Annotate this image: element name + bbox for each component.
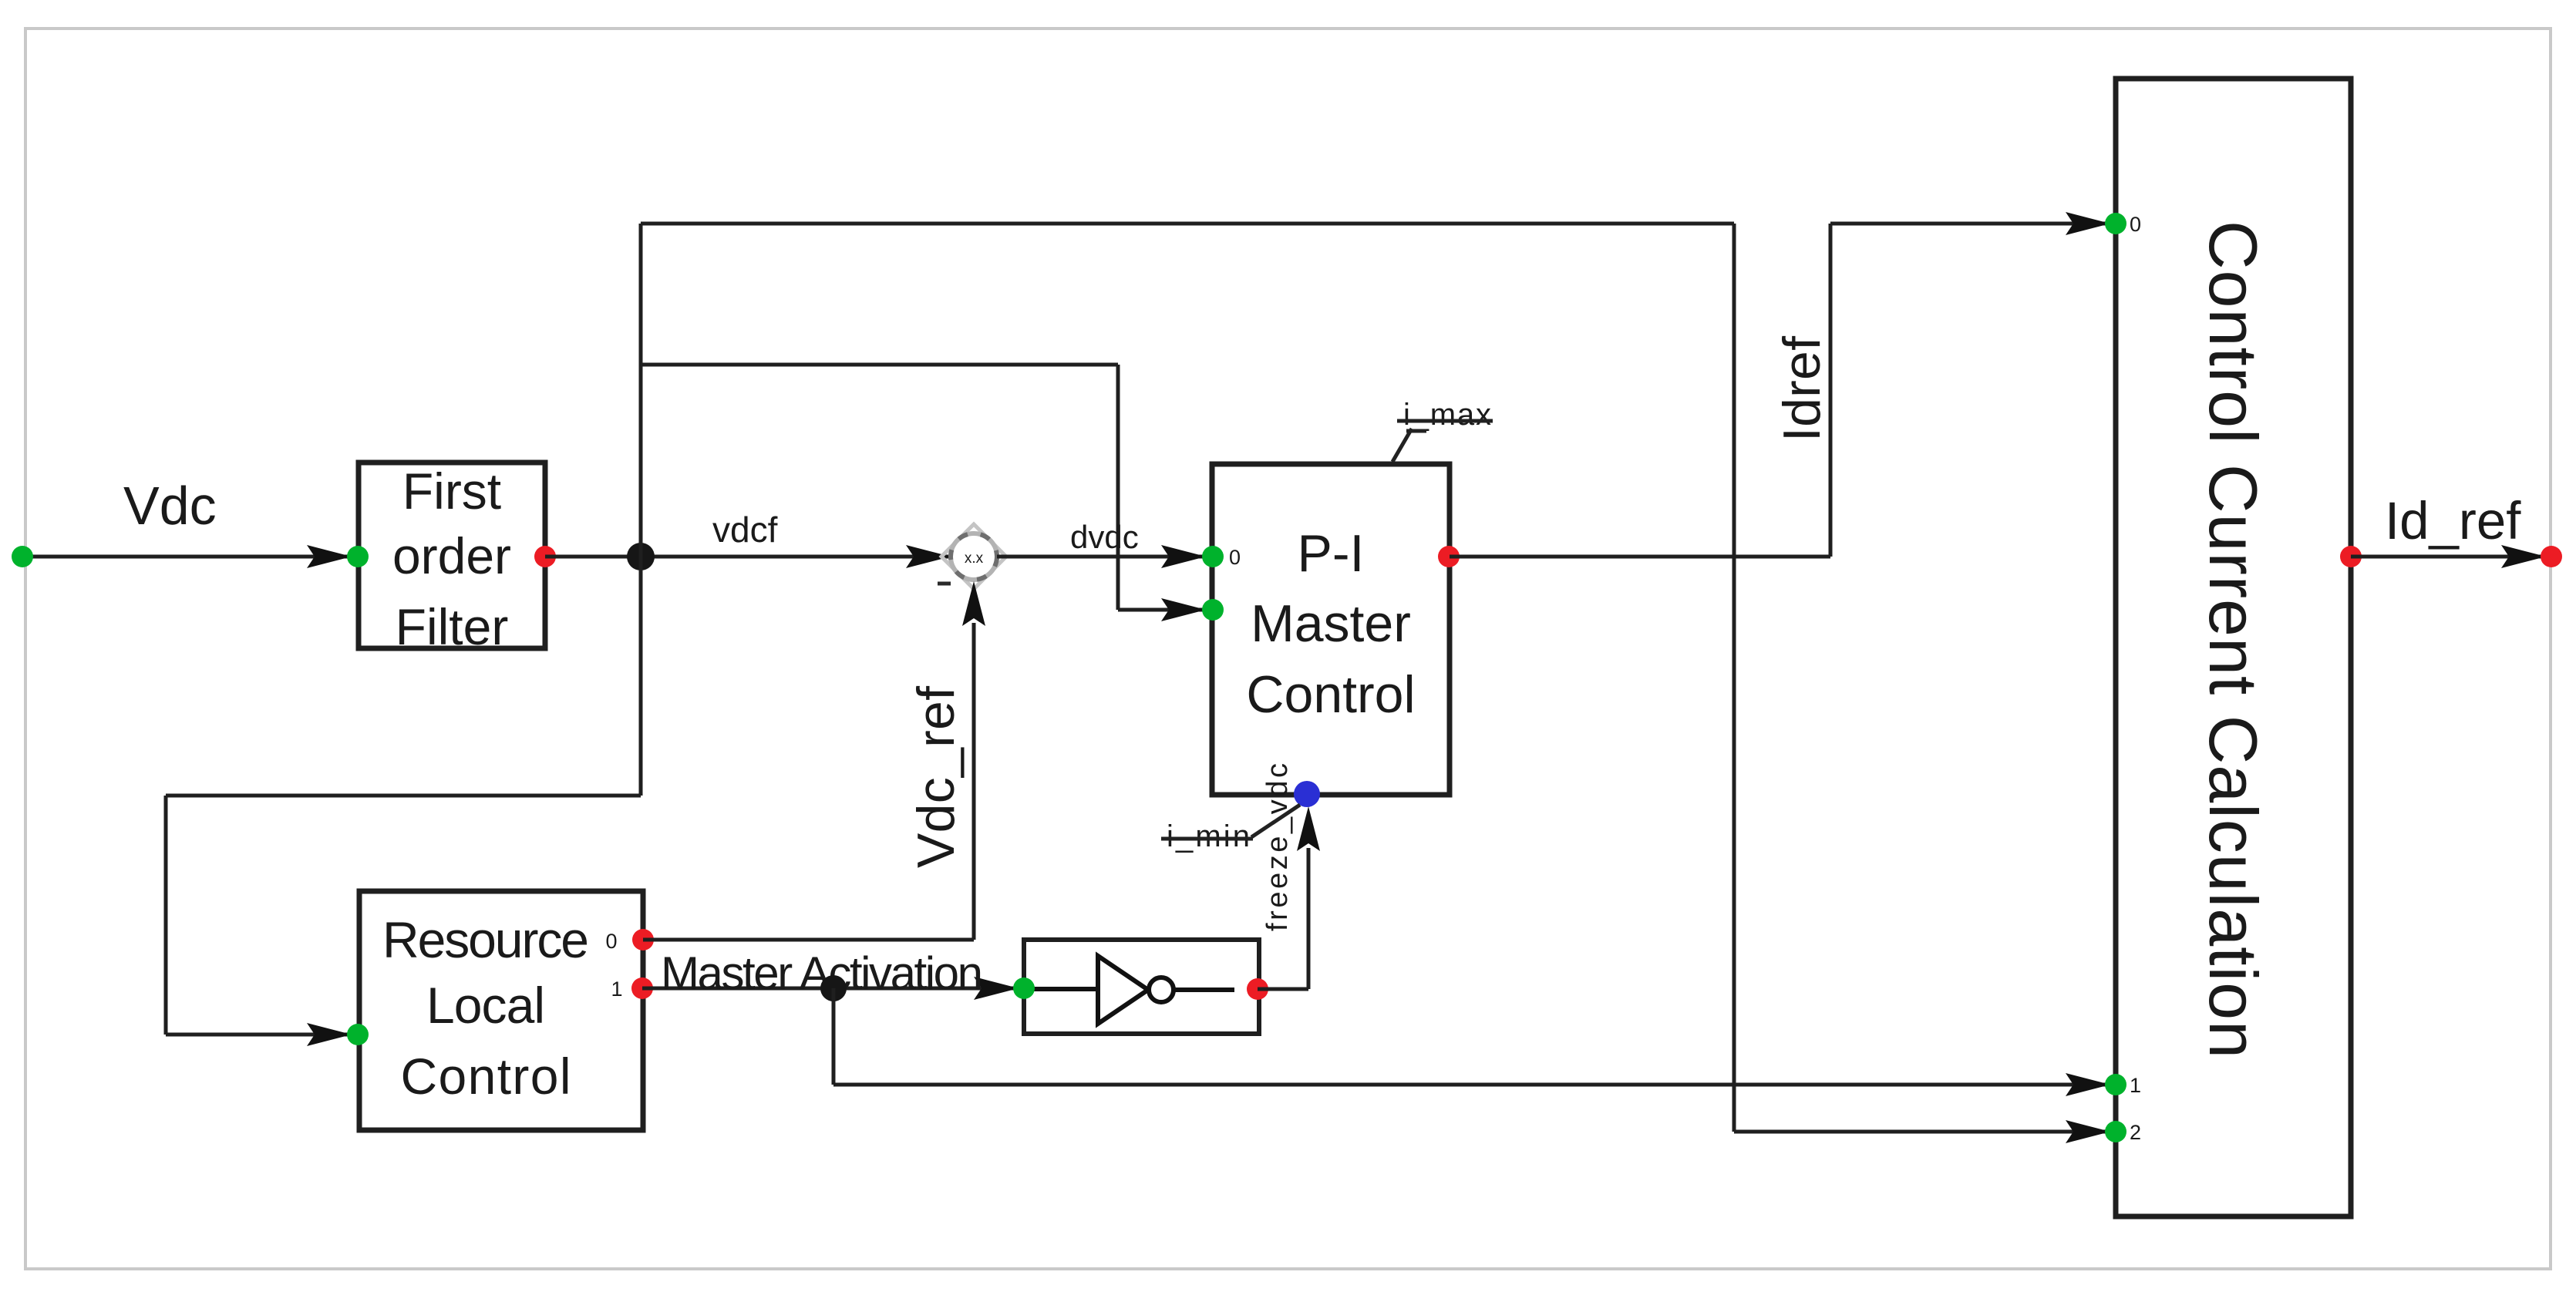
wire P-I output to Idref riser <box>1450 212 2110 557</box>
pin P-I input 0 (green) <box>1202 546 1241 569</box>
pin Control Current Calculation input 0 (green) <box>2105 213 2141 236</box>
svg-text:Id_ref: Id_ref <box>2385 491 2521 550</box>
wire vdcf: filter output to summing junction <box>545 545 951 568</box>
wire NOT output to freeze_vdc pin <box>1258 806 1320 989</box>
svg-text:2: 2 <box>2130 1121 2141 1144</box>
pin Resource output 1 (red) <box>611 977 653 1001</box>
wire lower-left feedback down-run <box>166 796 641 1046</box>
wire top feedback run to Idref column <box>641 222 1734 226</box>
svg-text:Resource: Resource <box>382 911 589 968</box>
pin P-I output (red) <box>1438 546 1460 567</box>
wire Vdc input <box>22 545 352 568</box>
pin Resource output 0 (red) <box>605 929 654 953</box>
wire Idref column continuation to input 2 <box>1734 224 2110 1143</box>
pin Control Current Calculation input 1 (green) <box>2105 1074 2141 1097</box>
svg-text:Master: Master <box>1251 594 1411 653</box>
svg-text:vdcf: vdcf <box>712 510 778 550</box>
svg-text:1: 1 <box>2130 1074 2141 1097</box>
svg-text:Filter: Filter <box>396 598 509 655</box>
node Vdc source terminal <box>12 546 33 567</box>
label minus sign of summing junction <box>938 582 951 586</box>
wire drop to P-I lower input <box>1118 365 1206 621</box>
node junction on Master Activation wire <box>820 975 847 1001</box>
pin P-I freeze input (blue) <box>1294 781 1320 807</box>
pin Control Current Calculation input 2 (green) <box>2105 1121 2141 1144</box>
block Resource Local Control <box>359 891 643 1130</box>
block NOT gate <box>1024 940 1259 1034</box>
svg-text:i_max: i_max <box>1403 398 1491 432</box>
svg-text:P-I: P-I <box>1298 524 1365 583</box>
svg-text:First: First <box>402 463 501 520</box>
pin First order Filter output (red) <box>534 546 556 567</box>
block First order Filter <box>359 463 545 655</box>
label i_min with leader <box>1161 805 1300 853</box>
svg-text:Idref: Idref <box>1773 336 1831 442</box>
node junction at vdcf <box>627 543 655 570</box>
summing junction <box>941 524 1006 589</box>
svg-text:i_min: i_min <box>1167 819 1250 853</box>
node Id_ref terminal (red) <box>2541 546 2562 567</box>
svg-text:0: 0 <box>605 930 617 953</box>
block Control Current Calculation <box>2116 79 2351 1216</box>
block P-I Master Control <box>1212 464 1450 795</box>
wire second feedback run to P-I lower input <box>641 363 1118 367</box>
svg-text:Control: Control <box>1246 665 1415 724</box>
svg-text:x.x: x.x <box>965 550 984 567</box>
wire junction drop to input 1 run <box>833 988 2110 1096</box>
wire Vdc_ref: output 0 to summing junction <box>643 581 985 940</box>
svg-text:0: 0 <box>2130 213 2141 236</box>
wire Master Activation: output 1 to NOT gate <box>642 977 1019 1000</box>
svg-text:Vdc_ref: Vdc_ref <box>907 686 965 868</box>
pin P-I input 1 (green) <box>1202 599 1224 621</box>
wire dvdc: summing junction to P-I input 0 <box>997 545 1206 568</box>
svg-text:Local: Local <box>426 977 545 1034</box>
pin NOT gate input (green) <box>1013 977 1035 999</box>
svg-text:order: order <box>392 527 511 584</box>
pin First order Filter input (green) <box>347 546 369 567</box>
svg-text:freeze_vdc: freeze_vdc <box>1261 763 1294 931</box>
svg-text:dvdc: dvdc <box>1070 519 1139 555</box>
pin Control Current Calculation output (red) <box>2340 546 2362 567</box>
wire feedback riser at x=831 <box>639 224 643 796</box>
label i_max with leader <box>1392 398 1493 462</box>
svg-text:1: 1 <box>611 977 622 1001</box>
svg-text:Control Current Calculation: Control Current Calculation <box>2195 220 2271 1058</box>
wire Id_ref output <box>2351 545 2546 568</box>
pin NOT gate output (red) <box>1247 978 1268 1000</box>
pin Resource Local Control input (green) <box>347 1024 369 1045</box>
svg-text:Control: Control <box>401 1048 571 1105</box>
svg-text:Vdc: Vdc <box>123 476 217 536</box>
svg-text:0: 0 <box>1229 546 1241 569</box>
